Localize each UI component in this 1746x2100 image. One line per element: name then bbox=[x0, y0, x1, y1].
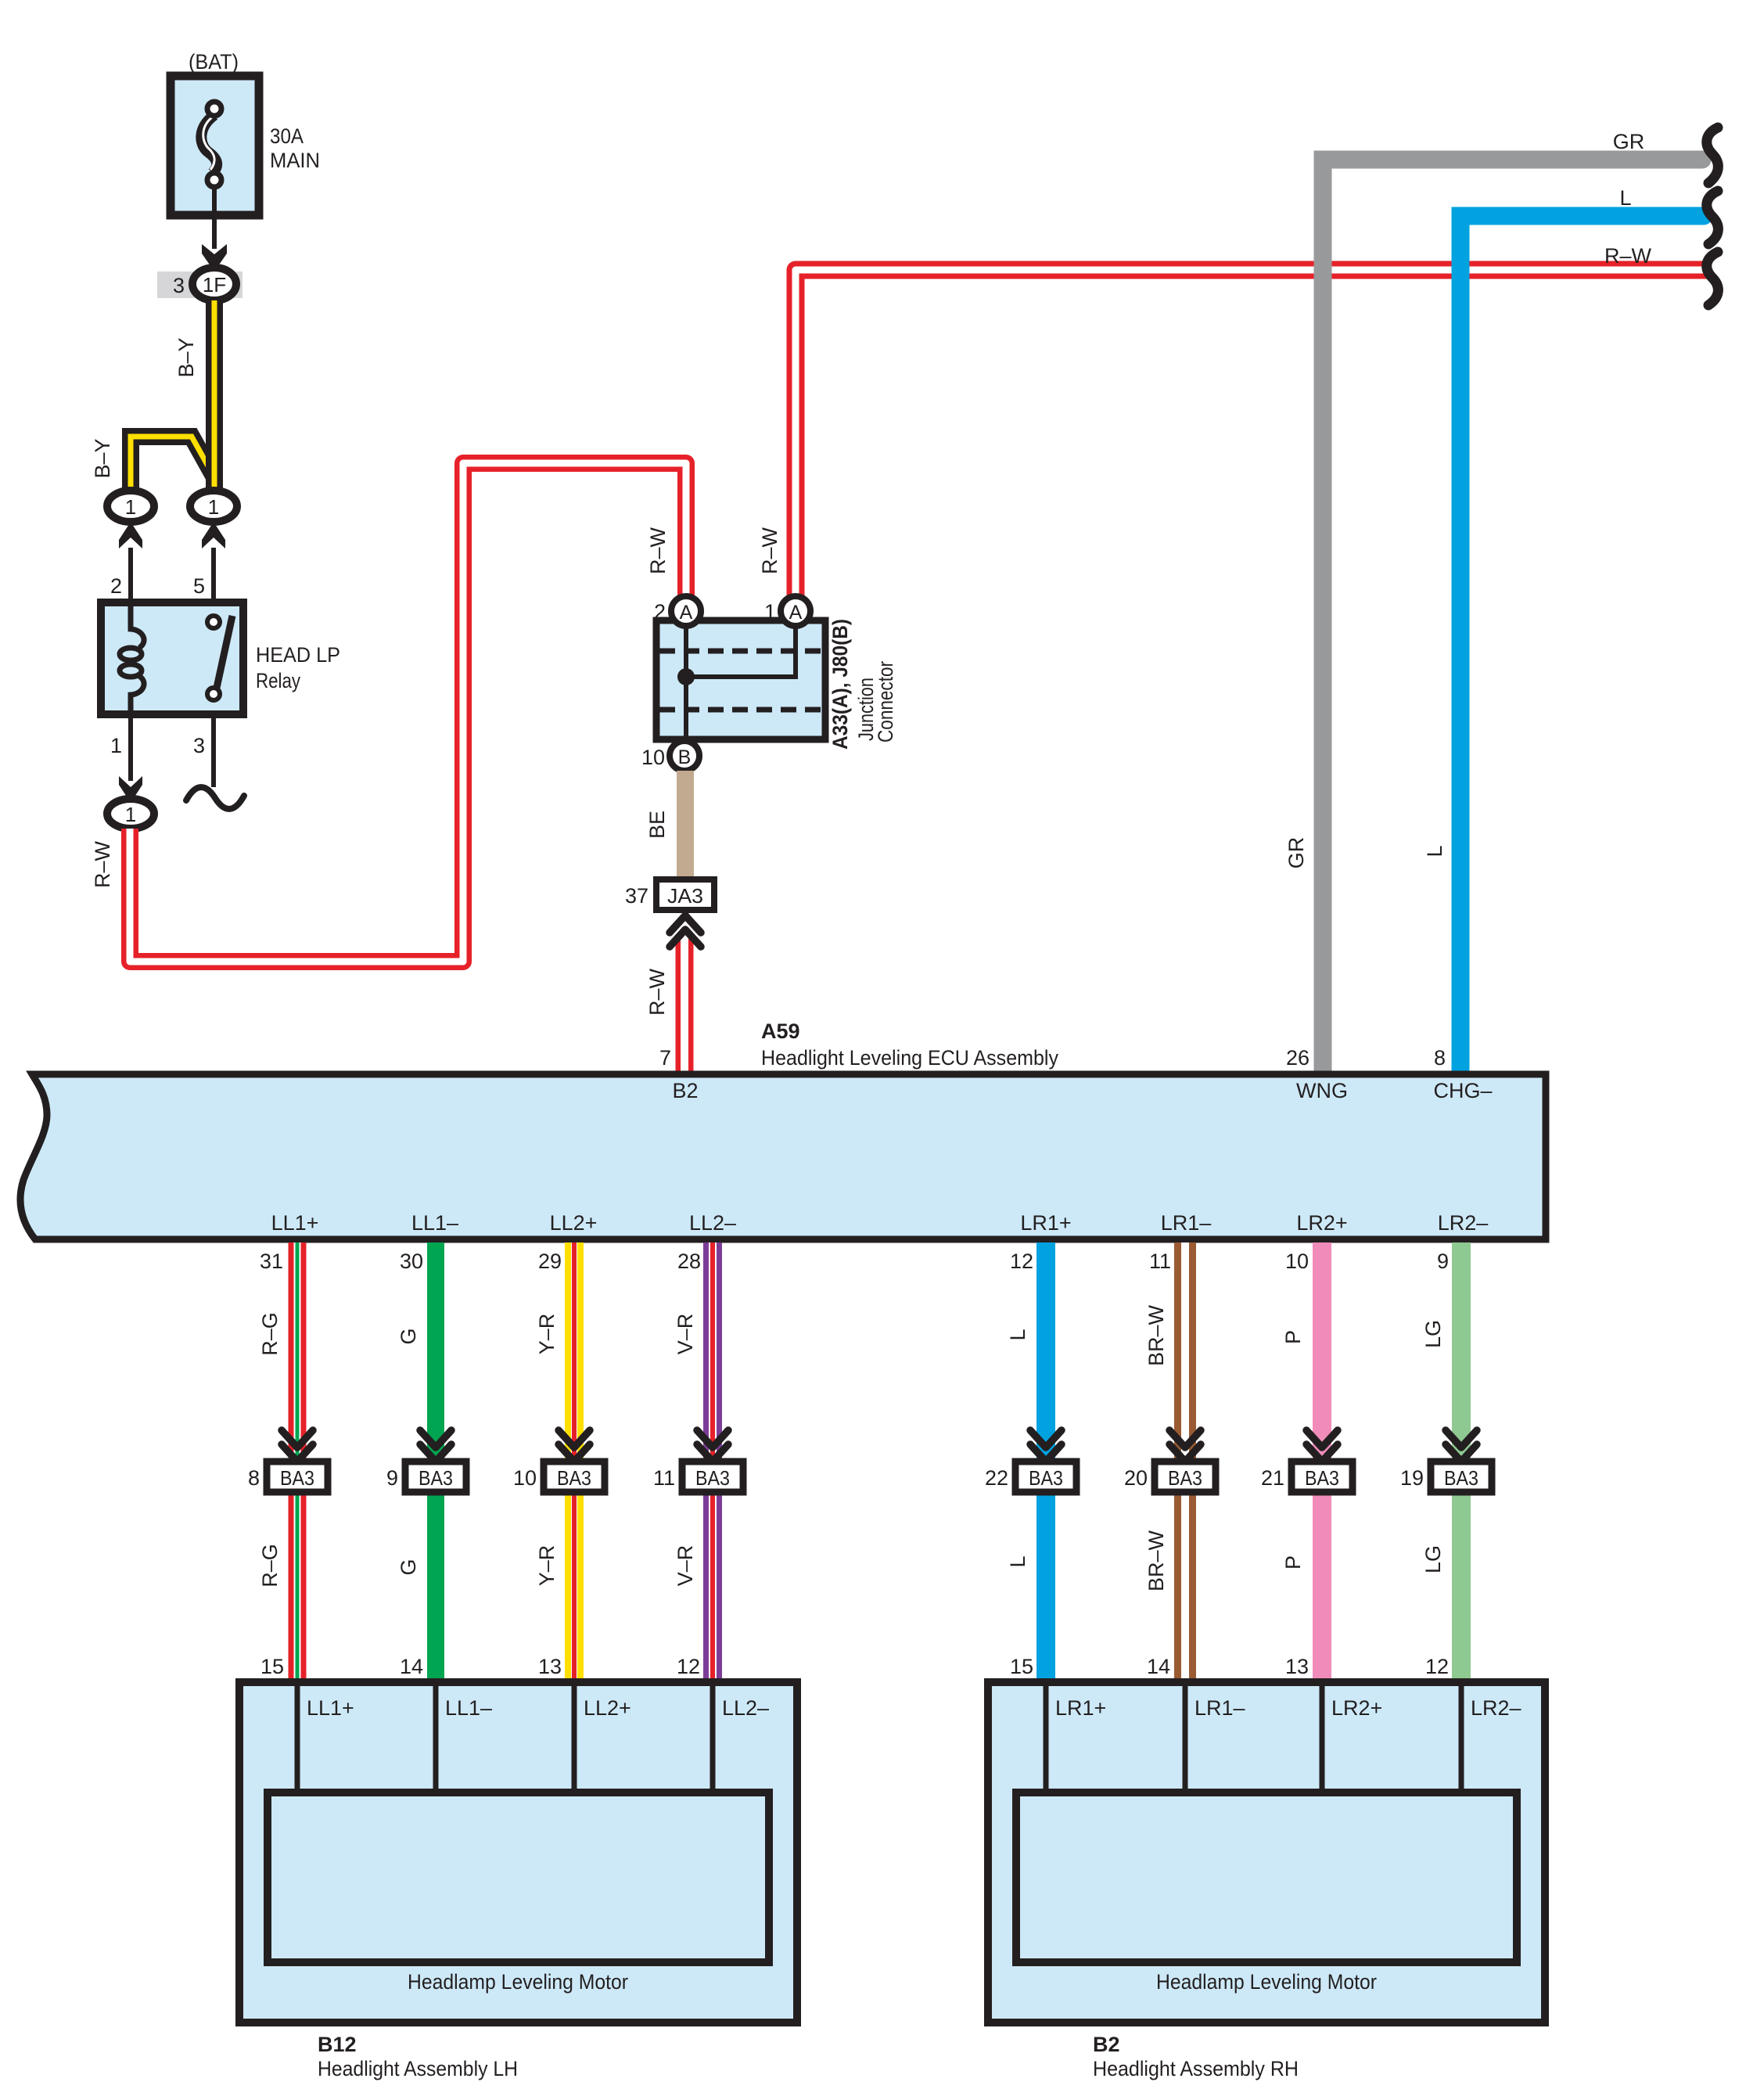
svg-text:LL1+: LL1+ bbox=[307, 1696, 354, 1720]
chevron arrow down (BA3 20) bbox=[1169, 1430, 1201, 1462]
svg-text:12: 12 bbox=[1425, 1655, 1449, 1678]
headlight assembly LH box bbox=[239, 1682, 797, 2023]
svg-text:L: L bbox=[1006, 1555, 1029, 1567]
headlamp leveling motor RH box bbox=[1016, 1793, 1517, 1962]
svg-text:GR: GR bbox=[1284, 837, 1308, 869]
svg-text:LR1–: LR1– bbox=[1195, 1696, 1245, 1720]
wire to relay pin 5 bbox=[211, 548, 216, 602]
svg-text:1: 1 bbox=[125, 803, 136, 826]
svg-text:30: 30 bbox=[400, 1250, 423, 1273]
squiggle L end bbox=[1707, 191, 1719, 244]
svg-text:BA3: BA3 bbox=[1168, 1466, 1202, 1490]
svg-text:V–R: V–R bbox=[674, 1545, 697, 1587]
arrow up to connector 1 (left) bbox=[119, 522, 142, 548]
svg-text:BA3: BA3 bbox=[1305, 1466, 1339, 1490]
junction internal L link bbox=[688, 624, 796, 677]
svg-text:Relay: Relay bbox=[256, 669, 300, 692]
wire B-Y main bbox=[206, 300, 223, 492]
svg-text:LL2+: LL2+ bbox=[550, 1211, 598, 1235]
svg-text:BA3: BA3 bbox=[1444, 1466, 1478, 1490]
squiggle R-W end bbox=[1707, 252, 1719, 305]
wire B-Y branch bbox=[131, 437, 214, 492]
svg-text:13: 13 bbox=[1285, 1655, 1309, 1678]
connector 1F shaded band bbox=[157, 271, 242, 298]
svg-text:BA3: BA3 bbox=[419, 1466, 453, 1490]
arrow down into 1F bbox=[202, 244, 227, 271]
relay coil bbox=[120, 602, 144, 714]
svg-text:13: 13 bbox=[538, 1655, 562, 1678]
svg-text:B2: B2 bbox=[1093, 2033, 1120, 2056]
wire P column bbox=[1313, 1242, 1331, 1682]
svg-text:21: 21 bbox=[1261, 1466, 1284, 1490]
svg-text:2: 2 bbox=[110, 574, 122, 598]
svg-text:R–G: R–G bbox=[258, 1544, 282, 1588]
chevron arrow up (JA3) bbox=[670, 915, 701, 947]
connector BA3 (20) bbox=[1155, 1462, 1216, 1492]
ECU A59 band bbox=[20, 1074, 1546, 1239]
svg-text:28: 28 bbox=[677, 1250, 701, 1273]
svg-text:R–G: R–G bbox=[258, 1312, 282, 1356]
relay HEAD LP box bbox=[101, 602, 243, 714]
connector BA3 (22) bbox=[1015, 1462, 1076, 1492]
svg-text:22: 22 bbox=[985, 1466, 1008, 1490]
wire GR gray bbox=[1323, 160, 1702, 1071]
svg-text:15: 15 bbox=[1010, 1655, 1033, 1678]
svg-text:31: 31 bbox=[260, 1250, 283, 1273]
wire R-W JA3 to ECU bbox=[676, 937, 694, 1073]
svg-text:R–W: R–W bbox=[645, 968, 669, 1016]
svg-text:WNG: WNG bbox=[1296, 1079, 1348, 1102]
wire Y-R column bbox=[565, 1242, 584, 1682]
RH divider LR1- bbox=[1183, 1686, 1188, 1793]
svg-text:9: 9 bbox=[386, 1466, 398, 1490]
connector 1F ellipse bbox=[192, 268, 236, 300]
svg-text:BA3: BA3 bbox=[695, 1466, 730, 1490]
svg-text:LR2–: LR2– bbox=[1471, 1696, 1521, 1720]
svg-text:12: 12 bbox=[677, 1655, 700, 1678]
svg-text:R–W: R–W bbox=[91, 840, 114, 888]
svg-text:3: 3 bbox=[193, 734, 205, 757]
svg-text:A: A bbox=[789, 602, 803, 624]
fuse 30A MAIN box bbox=[171, 76, 259, 215]
svg-text:L: L bbox=[1423, 845, 1446, 857]
svg-text:MAIN: MAIN bbox=[270, 149, 320, 172]
svg-text:1: 1 bbox=[208, 495, 219, 519]
svg-text:29: 29 bbox=[538, 1250, 562, 1273]
connector BA3 (8) bbox=[267, 1462, 328, 1492]
headlamp leveling motor LH box bbox=[268, 1793, 769, 1962]
connector BA3 (10) bbox=[544, 1462, 605, 1492]
svg-text:P: P bbox=[1281, 1555, 1305, 1570]
wire BE tan bbox=[677, 771, 694, 879]
chevron arrow down (BA3 10) bbox=[559, 1430, 590, 1462]
LH divider LL2+ bbox=[572, 1686, 577, 1793]
junction internal bus vertical bbox=[684, 624, 688, 736]
svg-text:9: 9 bbox=[1437, 1250, 1449, 1273]
svg-text:Headlight Assembly RH: Headlight Assembly RH bbox=[1093, 2057, 1299, 2080]
chevron arrow down (BA3 11) bbox=[697, 1430, 728, 1462]
svg-text:14: 14 bbox=[1147, 1655, 1170, 1678]
wire relay pin 1 down bbox=[128, 714, 133, 781]
svg-text:B: B bbox=[678, 746, 692, 768]
svg-text:BE: BE bbox=[645, 811, 669, 839]
connector BA3 (9) bbox=[405, 1462, 466, 1492]
svg-text:B–Y: B–Y bbox=[91, 438, 114, 478]
svg-text:B2: B2 bbox=[672, 1079, 698, 1102]
svg-text:1F: 1F bbox=[203, 273, 226, 297]
svg-text:Headlamp Leveling Motor: Headlamp Leveling Motor bbox=[1156, 1970, 1377, 1994]
svg-text:V–R: V–R bbox=[674, 1314, 697, 1355]
RH divider LR2+ bbox=[1320, 1686, 1325, 1793]
svg-text:LL1+: LL1+ bbox=[271, 1211, 319, 1235]
svg-text:1: 1 bbox=[125, 495, 136, 519]
wire V-R column bbox=[703, 1242, 722, 1682]
svg-text:7: 7 bbox=[659, 1046, 671, 1070]
svg-text:R–W: R–W bbox=[646, 527, 670, 574]
svg-text:A: A bbox=[680, 602, 693, 624]
svg-text:(BAT): (BAT) bbox=[189, 50, 239, 74]
svg-text:30A: 30A bbox=[270, 124, 304, 148]
chevron arrow down (BA3 8) bbox=[282, 1430, 313, 1462]
LH divider LL1- bbox=[433, 1686, 439, 1793]
connector 1 (bottom) bbox=[107, 799, 154, 829]
wire R-G column bbox=[289, 1242, 307, 1682]
svg-text:LR2–: LR2– bbox=[1438, 1211, 1489, 1235]
svg-text:BA3: BA3 bbox=[1029, 1466, 1063, 1490]
svg-text:A59: A59 bbox=[761, 1019, 800, 1043]
svg-text:LL2–: LL2– bbox=[722, 1696, 769, 1720]
RH divider LR2- bbox=[1459, 1686, 1464, 1793]
wire R-W from junction A1 up and right bbox=[796, 270, 1708, 599]
svg-text:L: L bbox=[1006, 1329, 1029, 1340]
svg-text:5: 5 bbox=[193, 574, 205, 598]
svg-text:P: P bbox=[1281, 1330, 1305, 1344]
connector BA3 (21) bbox=[1292, 1462, 1353, 1492]
svg-text:Connector: Connector bbox=[874, 661, 897, 743]
svg-text:3: 3 bbox=[173, 274, 185, 297]
svg-text:LR1+: LR1+ bbox=[1020, 1211, 1071, 1235]
svg-text:BA3: BA3 bbox=[280, 1466, 314, 1490]
chevron arrow down (BA3 22) bbox=[1030, 1430, 1062, 1462]
connector 1 (relay pin5 side) bbox=[190, 491, 237, 522]
wire G column bbox=[427, 1242, 444, 1682]
svg-text:Y–R: Y–R bbox=[535, 1545, 559, 1587]
svg-text:19: 19 bbox=[1400, 1466, 1424, 1490]
svg-text:LL1–: LL1– bbox=[411, 1211, 458, 1235]
chevron arrow down (BA3 21) bbox=[1306, 1430, 1338, 1462]
connector BA3 (11) bbox=[682, 1462, 743, 1492]
svg-text:LG: LG bbox=[1421, 1320, 1445, 1348]
headlight assembly RH box bbox=[988, 1682, 1545, 2023]
svg-text:LL1–: LL1– bbox=[445, 1696, 492, 1720]
svg-text:LR2+: LR2+ bbox=[1331, 1696, 1382, 1720]
svg-text:26: 26 bbox=[1286, 1046, 1309, 1070]
svg-text:LG: LG bbox=[1421, 1545, 1445, 1573]
svg-text:B–Y: B–Y bbox=[174, 337, 198, 377]
svg-text:JA3: JA3 bbox=[667, 884, 703, 908]
svg-text:8: 8 bbox=[248, 1466, 260, 1490]
svg-text:11: 11 bbox=[653, 1466, 675, 1490]
connector 1 (relay pin2 side) bbox=[107, 491, 154, 522]
chevron arrow down (BA3 9) bbox=[420, 1430, 451, 1462]
svg-text:LR2+: LR2+ bbox=[1296, 1211, 1347, 1235]
svg-text:R–W: R–W bbox=[758, 527, 781, 574]
junction connector A33(A) J80(B) box bbox=[656, 620, 825, 739]
wire LG column bbox=[1452, 1242, 1471, 1682]
svg-text:BA3: BA3 bbox=[557, 1466, 591, 1490]
wire fuse to 1F bbox=[212, 188, 217, 249]
squiggle GR end bbox=[1707, 128, 1719, 183]
svg-text:Headlamp Leveling Motor: Headlamp Leveling Motor bbox=[408, 1970, 628, 1994]
junction pin B (10) bbox=[670, 741, 699, 771]
svg-text:1: 1 bbox=[110, 734, 122, 757]
svg-text:20: 20 bbox=[1124, 1466, 1148, 1490]
svg-text:10: 10 bbox=[513, 1466, 537, 1490]
svg-text:A33(A), J80(B): A33(A), J80(B) bbox=[828, 619, 852, 750]
svg-text:R–W: R–W bbox=[1604, 244, 1652, 268]
junction dashed line upper bbox=[659, 649, 822, 654]
wire to relay pin 2 bbox=[128, 548, 133, 602]
svg-text:LL2+: LL2+ bbox=[584, 1696, 631, 1720]
svg-text:LL2–: LL2– bbox=[689, 1211, 736, 1235]
svg-text:LR1–: LR1– bbox=[1161, 1211, 1212, 1235]
arrow down into connector 1 (bottom) bbox=[119, 776, 142, 803]
svg-text:Headlight Assembly LH: Headlight Assembly LH bbox=[318, 2057, 518, 2080]
arrow up to connector 1 (right) bbox=[202, 522, 225, 548]
junction dashed line lower bbox=[659, 707, 822, 713]
svg-text:15: 15 bbox=[260, 1655, 284, 1678]
svg-text:14: 14 bbox=[400, 1655, 423, 1678]
svg-text:10: 10 bbox=[1285, 1250, 1309, 1273]
connector BA3 (19) bbox=[1431, 1462, 1492, 1492]
svg-text:Headlight Leveling ECU Assembl: Headlight Leveling ECU Assembly bbox=[761, 1046, 1058, 1070]
connector JA3 bbox=[656, 879, 714, 910]
wire L column bbox=[1036, 1242, 1055, 1682]
chevron arrow down (BA3 19) bbox=[1446, 1430, 1477, 1462]
junction pin A (1) bbox=[781, 596, 810, 626]
svg-text:11: 11 bbox=[1149, 1250, 1171, 1273]
wire BR-W column bbox=[1174, 1242, 1196, 1682]
svg-text:HEAD LP: HEAD LP bbox=[256, 643, 340, 667]
svg-text:10: 10 bbox=[641, 746, 665, 769]
squiggle open end bbox=[186, 787, 244, 809]
svg-text:GR: GR bbox=[1613, 130, 1645, 153]
svg-text:BR–W: BR–W bbox=[1144, 1304, 1168, 1366]
svg-text:12: 12 bbox=[1010, 1250, 1033, 1273]
junction pin A (2) bbox=[671, 596, 701, 626]
LH divider LL1+ bbox=[295, 1686, 300, 1793]
svg-text:Y–R: Y–R bbox=[535, 1314, 559, 1355]
wire relay pin 3 down bbox=[211, 714, 216, 787]
svg-text:CHG–: CHG– bbox=[1433, 1079, 1492, 1102]
svg-text:2: 2 bbox=[654, 600, 666, 624]
relay switch bbox=[207, 616, 232, 700]
svg-text:LR1+: LR1+ bbox=[1055, 1696, 1106, 1720]
wire L blue bbox=[1460, 216, 1704, 1071]
svg-text:G: G bbox=[397, 1559, 420, 1575]
svg-text:B12: B12 bbox=[318, 2033, 357, 2056]
junction node dot bbox=[677, 668, 695, 685]
LH divider LL2- bbox=[710, 1686, 716, 1793]
svg-text:1: 1 bbox=[764, 600, 776, 624]
svg-text:G: G bbox=[397, 1328, 420, 1344]
svg-text:L: L bbox=[1619, 186, 1631, 210]
wire R-W from relay to junction A2 bbox=[130, 463, 686, 962]
svg-text:8: 8 bbox=[1434, 1046, 1446, 1070]
svg-text:BR–W: BR–W bbox=[1144, 1530, 1168, 1591]
svg-text:37: 37 bbox=[625, 884, 648, 908]
RH divider LR1+ bbox=[1044, 1686, 1049, 1793]
